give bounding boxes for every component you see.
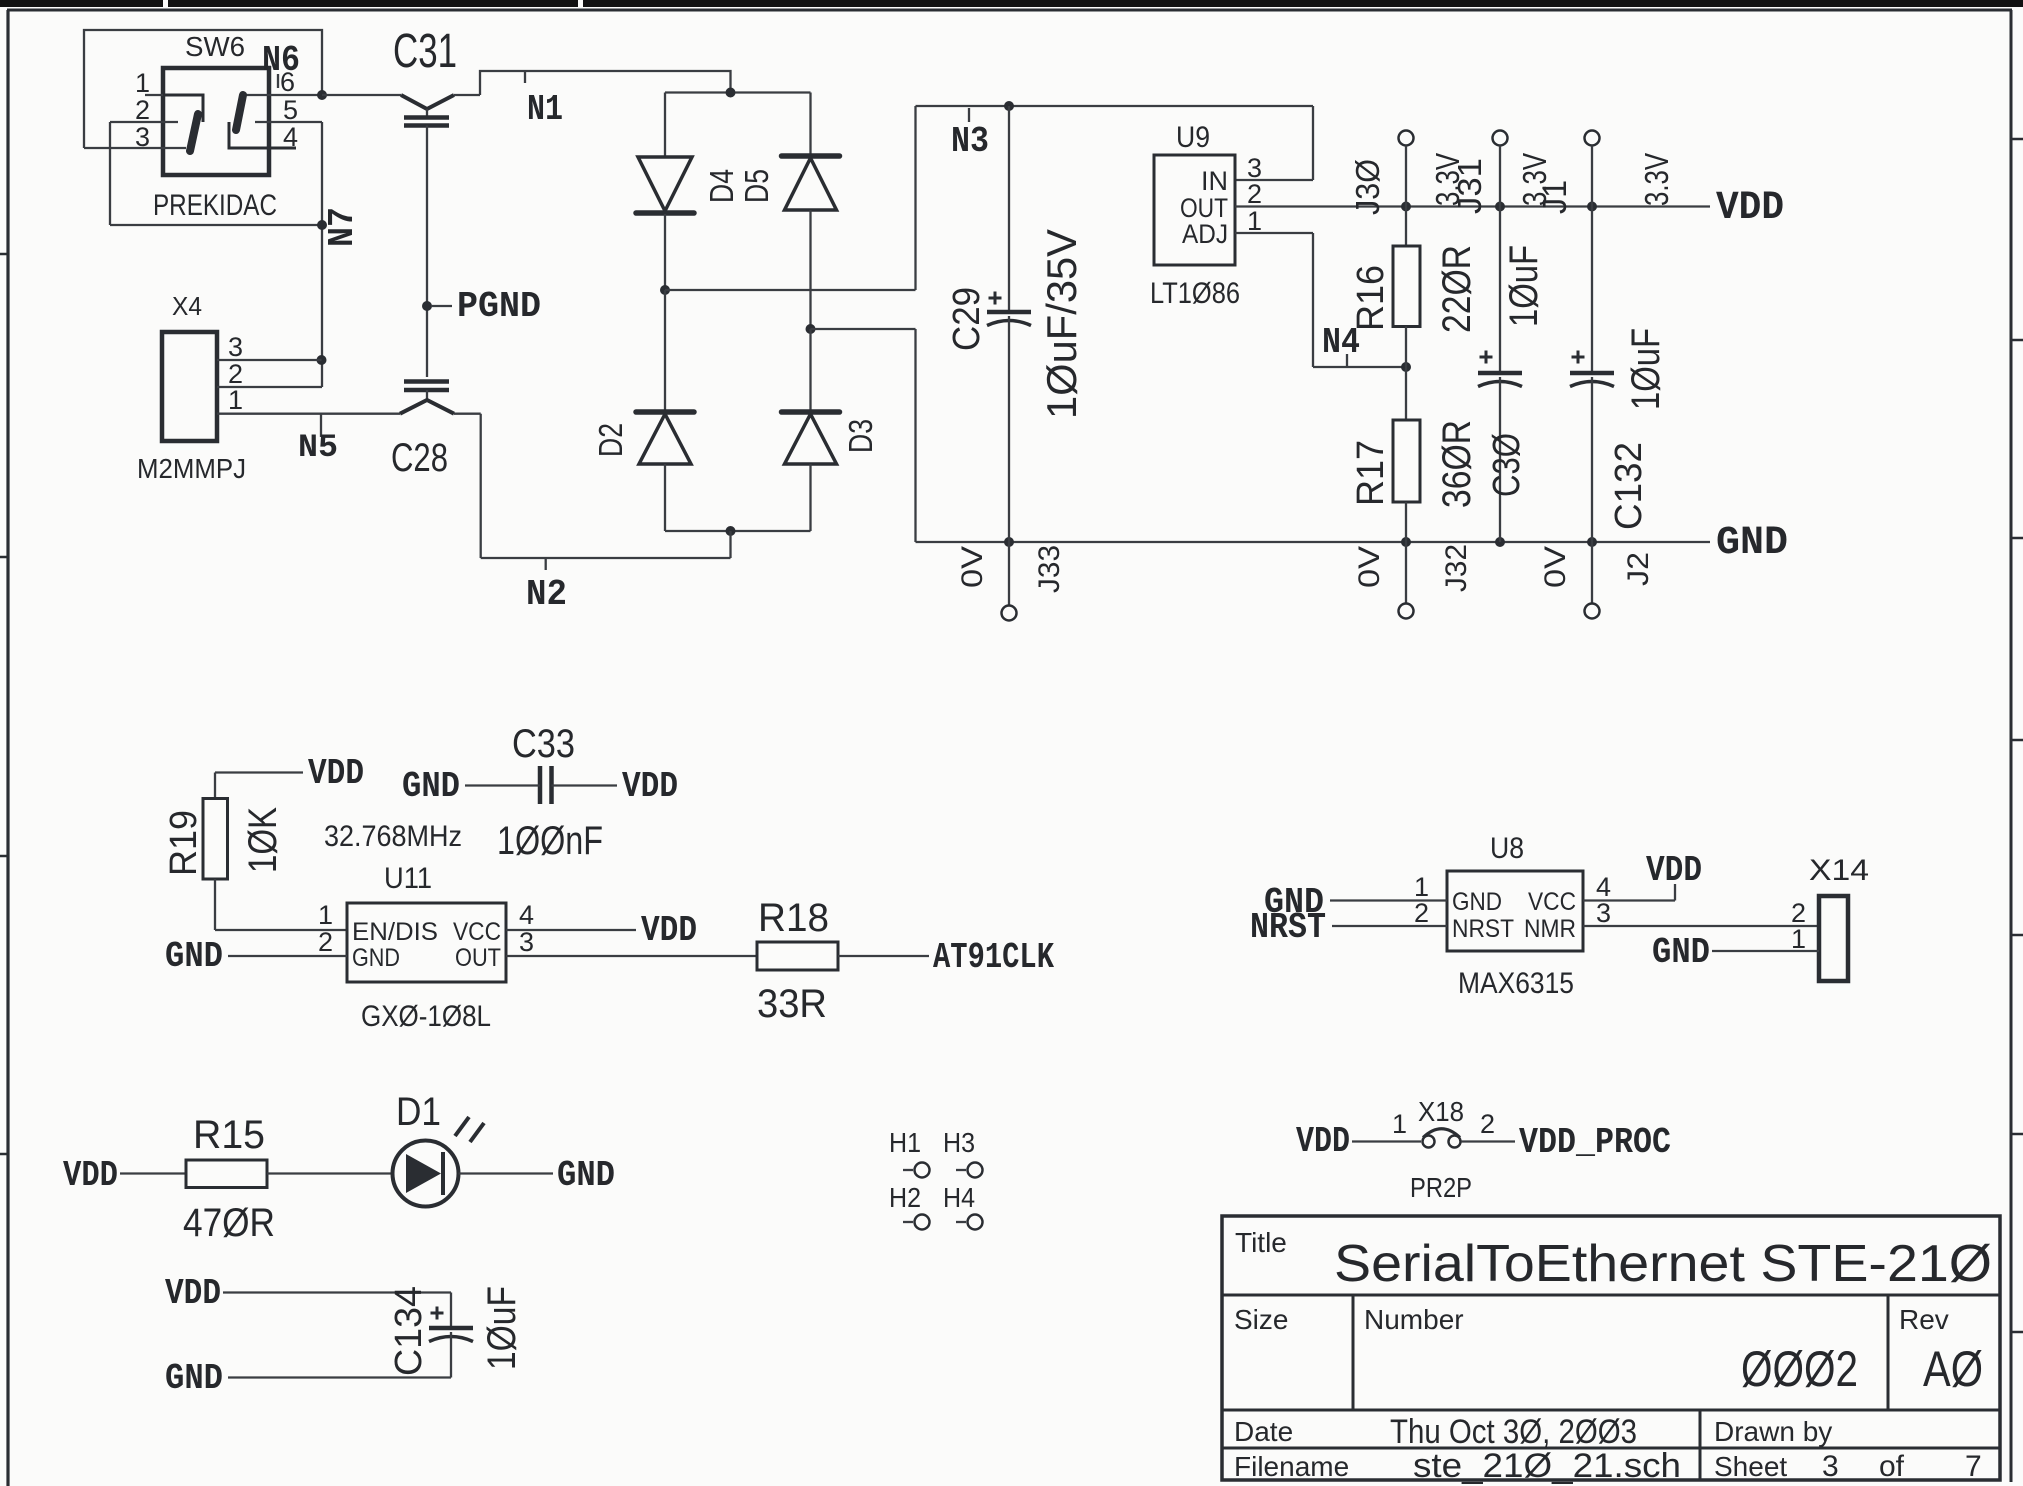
svg-text:0V: 0V [1353,546,1386,588]
svg-text:ste_21Ø_21.sch: ste_21Ø_21.sch [1413,1447,1681,1485]
svg-text:47ØR: 47ØR [183,1201,275,1245]
svg-text:VDD: VDD [1296,1121,1350,1162]
svg-text:1: 1 [135,68,150,98]
svg-text:MAX6315: MAX6315 [1458,967,1574,1000]
svg-text:OUT: OUT [455,944,501,972]
svg-text:2: 2 [1247,179,1262,209]
svg-text:R16: R16 [1350,265,1392,331]
svg-text:NRST: NRST [1452,915,1514,943]
svg-text:H2: H2 [889,1182,921,1213]
svg-text:J2: J2 [1622,552,1655,586]
svg-text:Date: Date [1234,1416,1293,1447]
svg-text:GND: GND [1652,932,1710,973]
svg-text:H1: H1 [889,1127,921,1158]
svg-text:0V: 0V [1539,546,1572,588]
svg-text:Sheet: Sheet [1714,1451,1787,1482]
svg-text:NRST: NRST [1250,907,1326,948]
svg-text:Thu Oct 3Ø, 2ØØ3: Thu Oct 3Ø, 2ØØ3 [1390,1413,1637,1451]
svg-text:R19: R19 [163,810,205,876]
svg-text:C33: C33 [512,722,575,766]
svg-text:ADJ: ADJ [1182,219,1228,249]
svg-text:GND: GND [165,936,223,977]
svg-text:1: 1 [1247,206,1262,236]
svg-text:22ØR: 22ØR [1435,245,1479,333]
svg-text:D4: D4 [703,169,740,203]
svg-text:GND: GND [165,1358,223,1399]
svg-text:U11: U11 [384,862,432,895]
svg-text:VDD: VDD [165,1273,221,1314]
svg-text:Filename: Filename [1234,1451,1349,1482]
svg-text:Drawn by: Drawn by [1714,1416,1832,1447]
svg-text:C29: C29 [946,287,988,351]
svg-text:33R: 33R [757,982,827,1026]
svg-text:VDD: VDD [1716,186,1784,231]
svg-text:D5: D5 [738,169,775,203]
svg-text:N1: N1 [527,89,563,130]
svg-text:J32: J32 [1440,544,1473,592]
svg-text:R17: R17 [1350,440,1392,506]
svg-text:J3Ø: J3Ø [1349,159,1386,215]
svg-text:D1: D1 [396,1090,441,1134]
svg-text:N6: N6 [262,40,300,81]
svg-text:1ØK: 1ØK [241,807,285,873]
svg-text:1ØuF: 1ØuF [1502,245,1546,327]
svg-text:4: 4 [519,900,534,930]
svg-text:GND: GND [1452,888,1502,916]
svg-text:3: 3 [228,332,243,362]
svg-text:5: 5 [283,95,298,125]
svg-text:1ØuF: 1ØuF [1624,328,1668,410]
svg-text:C31: C31 [393,25,457,78]
svg-text:VDD: VDD [63,1155,118,1196]
svg-text:N7: N7 [322,207,363,247]
svg-text:R18: R18 [758,896,829,940]
svg-text:J1: J1 [1536,180,1573,214]
svg-text:N3: N3 [951,121,989,162]
svg-text:32.768MHz: 32.768MHz [324,820,462,853]
svg-text:PREKIDAC: PREKIDAC [153,189,277,222]
svg-text:1: 1 [318,900,333,930]
svg-text:VDD: VDD [622,766,678,807]
svg-text:3: 3 [1596,898,1611,928]
svg-text:GXØ-1Ø8L: GXØ-1Ø8L [361,1000,491,1033]
svg-text:NMR: NMR [1524,915,1576,943]
svg-text:C28: C28 [391,436,448,480]
svg-text:Title: Title [1235,1227,1287,1258]
svg-text:1ØØnF: 1ØØnF [497,819,603,863]
svg-text:ØØØ2: ØØØ2 [1741,1341,1858,1397]
svg-text:3: 3 [1822,1450,1839,1483]
svg-text:X14: X14 [1809,854,1869,887]
svg-text:Size: Size [1234,1304,1288,1335]
svg-text:2: 2 [318,927,333,957]
svg-text:U9: U9 [1176,121,1210,154]
svg-text:1: 1 [1392,1109,1407,1139]
svg-text:J33: J33 [1033,545,1066,593]
svg-text:VDD: VDD [641,910,697,951]
svg-text:1: 1 [1791,924,1806,954]
svg-text:AT91CLK: AT91CLK [933,937,1054,978]
svg-text:7: 7 [1965,1450,1982,1483]
svg-text:N5: N5 [298,429,338,466]
svg-text:AØ: AØ [1923,1341,1983,1397]
svg-text:2: 2 [1414,898,1429,928]
svg-text:VDD_PROC: VDD_PROC [1519,1122,1671,1163]
svg-text:3: 3 [135,122,150,152]
svg-text:D3: D3 [842,419,879,453]
svg-text:PR2P: PR2P [1410,1172,1472,1203]
svg-text:0V: 0V [956,546,989,588]
svg-text:GND: GND [1716,521,1788,566]
svg-text:1ØuF: 1ØuF [480,1286,524,1370]
svg-text:SW6: SW6 [185,31,245,62]
svg-text:2: 2 [135,95,150,125]
svg-text:VCC: VCC [1528,888,1576,916]
svg-text:36ØR: 36ØR [1435,420,1479,508]
svg-text:SerialToEthernet STE-21Ø: SerialToEthernet STE-21Ø [1334,1235,1992,1293]
svg-text:3.3V: 3.3V [1638,153,1675,206]
svg-text:H4: H4 [943,1182,975,1213]
svg-text:4: 4 [283,122,298,152]
svg-text:H3: H3 [943,1127,975,1158]
svg-text:1ØuF/35V: 1ØuF/35V [1038,229,1085,419]
svg-text:VCC: VCC [453,918,501,946]
svg-text:X18: X18 [1418,1096,1464,1127]
svg-text:VDD: VDD [1646,850,1702,891]
svg-text:D2: D2 [592,423,629,457]
svg-text:GND: GND [557,1155,615,1196]
svg-text:LT1Ø86: LT1Ø86 [1150,277,1240,310]
svg-text:C132: C132 [1608,442,1650,530]
svg-text:EN/DIS: EN/DIS [352,918,438,946]
svg-text:PGND: PGND [457,286,541,327]
svg-text:Number: Number [1364,1304,1464,1335]
svg-text:J31: J31 [1451,158,1488,214]
svg-text:Rev: Rev [1899,1304,1949,1335]
svg-text:VDD: VDD [308,753,364,794]
svg-text:3: 3 [519,927,534,957]
svg-text:N2: N2 [526,574,567,615]
svg-text:M2MMPJ: M2MMPJ [137,453,246,484]
svg-text:GND: GND [402,766,460,807]
svg-text:2: 2 [1480,1109,1495,1139]
svg-text:X4: X4 [172,291,202,321]
svg-text:GND: GND [352,944,400,972]
svg-text:U8: U8 [1490,832,1524,865]
svg-text:C134: C134 [388,1286,430,1376]
svg-text:of: of [1879,1450,1905,1483]
svg-text:R15: R15 [193,1113,265,1157]
svg-text:C3Ø: C3Ø [1486,433,1528,497]
svg-text:1: 1 [228,385,243,415]
svg-text:IN: IN [1201,166,1228,196]
